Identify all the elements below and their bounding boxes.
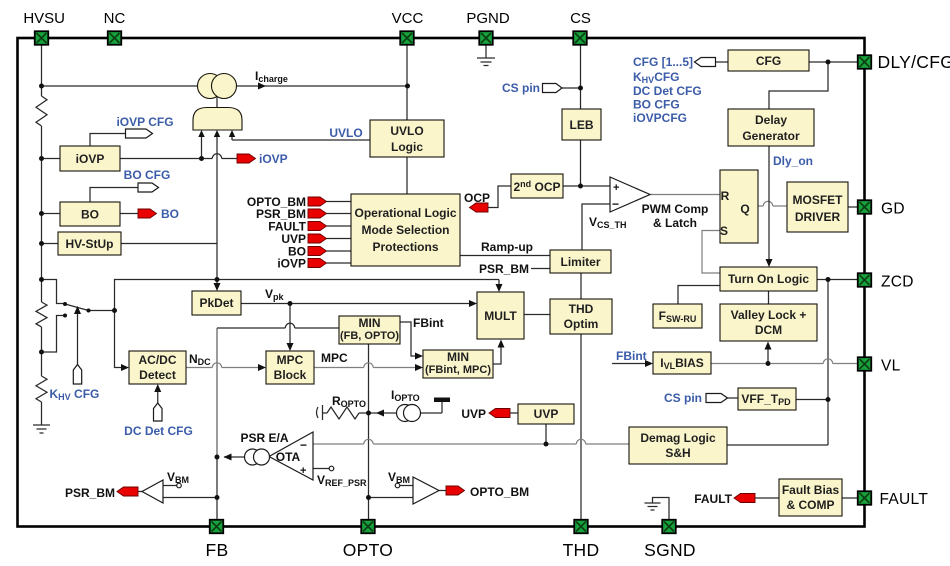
svg-text:iOVP: iOVP xyxy=(277,257,306,271)
svg-text:SGND: SGND xyxy=(644,540,696,560)
svg-text:UVP: UVP xyxy=(534,407,559,421)
svg-text:FBint: FBint xyxy=(616,349,647,363)
svg-text:THD: THD xyxy=(569,302,594,316)
svg-text:Block: Block xyxy=(274,368,307,382)
svg-text:PkDet: PkDet xyxy=(199,296,233,310)
svg-text:BO CFG: BO CFG xyxy=(633,98,680,112)
svg-text:Q: Q xyxy=(740,202,749,216)
svg-text:−: − xyxy=(612,197,619,211)
svg-text:Demag Logic: Demag Logic xyxy=(640,431,716,445)
svg-text:Valley Lock +: Valley Lock + xyxy=(731,308,807,322)
svg-text:DC Det CFG: DC Det CFG xyxy=(124,424,193,438)
svg-text:FAULT: FAULT xyxy=(880,491,929,508)
svg-text:(FBint, MPC): (FBint, MPC) xyxy=(425,364,491,376)
svg-text:MULT: MULT xyxy=(484,309,517,323)
svg-text:PSR_BM: PSR_BM xyxy=(65,486,115,500)
svg-text:Optim: Optim xyxy=(564,317,599,331)
svg-text:Fault Bias: Fault Bias xyxy=(782,483,840,497)
svg-text:S&H: S&H xyxy=(665,446,690,460)
svg-text:VCC: VCC xyxy=(392,10,424,27)
svg-text:PSR E/A: PSR E/A xyxy=(240,431,288,445)
svg-text:FBint: FBint xyxy=(413,316,444,330)
svg-text:PSR_BM: PSR_BM xyxy=(479,262,529,276)
svg-text:HVSU: HVSU xyxy=(23,10,65,27)
svg-text:S: S xyxy=(720,224,728,238)
svg-text:Protections: Protections xyxy=(372,240,438,254)
svg-text:Generator: Generator xyxy=(742,129,800,143)
svg-text:DLY/CFG: DLY/CFG xyxy=(878,52,950,72)
svg-text:THD: THD xyxy=(563,540,600,560)
svg-text:CS: CS xyxy=(570,10,591,27)
svg-text:DCM: DCM xyxy=(755,323,782,337)
svg-text:HV-StUp: HV-StUp xyxy=(66,237,114,251)
svg-text:+: + xyxy=(613,182,619,194)
svg-text:PWM Comp: PWM Comp xyxy=(642,202,709,216)
svg-text:DC Det CFG: DC Det CFG xyxy=(633,84,702,98)
svg-text:iOVP CFG: iOVP CFG xyxy=(116,115,173,129)
svg-text:MOSFET: MOSFET xyxy=(793,193,844,207)
svg-text:ZCD: ZCD xyxy=(881,274,914,291)
svg-text:CS pin: CS pin xyxy=(502,81,540,95)
svg-text:KHV CFG: KHV CFG xyxy=(50,387,100,402)
svg-text:MIN: MIN xyxy=(447,350,469,364)
svg-text:MPC: MPC xyxy=(277,353,304,367)
svg-text:UVLO: UVLO xyxy=(390,124,423,138)
svg-text:Detect: Detect xyxy=(139,368,176,382)
svg-text:UVP: UVP xyxy=(461,407,486,421)
svg-text:FAULT: FAULT xyxy=(694,492,732,506)
svg-text:BO: BO xyxy=(161,207,179,221)
svg-text:Dly_on: Dly_on xyxy=(773,154,813,168)
svg-text:MPC: MPC xyxy=(321,351,348,365)
svg-text:MIN: MIN xyxy=(359,316,381,330)
svg-text:+: + xyxy=(300,465,306,477)
svg-text:OPTO: OPTO xyxy=(343,540,393,560)
svg-text:& Latch: & Latch xyxy=(653,216,697,230)
svg-text:CS pin: CS pin xyxy=(664,391,702,405)
svg-text:iOVPCFG: iOVPCFG xyxy=(633,111,687,125)
svg-text:UVLO: UVLO xyxy=(329,126,362,140)
svg-text:LEB: LEB xyxy=(570,118,594,132)
svg-text:KHVCFG: KHVCFG xyxy=(633,70,680,85)
svg-text:FB: FB xyxy=(206,540,229,560)
svg-text:BO CFG: BO CFG xyxy=(124,168,171,182)
svg-text:(FB, OPTO): (FB, OPTO) xyxy=(340,330,399,342)
svg-text:PGND: PGND xyxy=(466,10,510,27)
svg-text:& COMP: & COMP xyxy=(787,498,835,512)
svg-text:Delay: Delay xyxy=(755,113,787,127)
svg-text:BO: BO xyxy=(81,208,99,222)
svg-text:OCP: OCP xyxy=(464,191,490,205)
svg-text:CFG [1...5]: CFG [1...5] xyxy=(633,55,693,69)
svg-text:R: R xyxy=(721,189,730,203)
svg-text:iOVP: iOVP xyxy=(259,152,288,166)
svg-text:−: − xyxy=(300,438,307,452)
svg-text:CFG: CFG xyxy=(756,54,781,68)
svg-text:iOVP: iOVP xyxy=(76,152,105,166)
svg-text:Turn On Logic: Turn On Logic xyxy=(728,272,809,286)
svg-text:Logic: Logic xyxy=(391,140,423,154)
svg-text:Mode Selection: Mode Selection xyxy=(361,223,449,237)
svg-text:GD: GD xyxy=(881,201,905,218)
svg-text:Ramp-up: Ramp-up xyxy=(481,240,533,254)
svg-text:OPTO_BM: OPTO_BM xyxy=(470,485,529,499)
svg-text:Operational Logic: Operational Logic xyxy=(354,206,456,220)
svg-text:OTA: OTA xyxy=(276,450,301,464)
svg-text:AC/DC: AC/DC xyxy=(139,353,177,367)
svg-text:NC: NC xyxy=(104,10,126,27)
svg-text:VL: VL xyxy=(881,358,901,375)
svg-text:Limiter: Limiter xyxy=(560,255,600,269)
svg-text:DRIVER: DRIVER xyxy=(795,210,841,224)
